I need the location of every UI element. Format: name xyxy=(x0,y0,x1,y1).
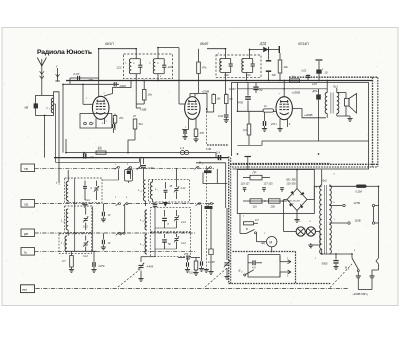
output transformer Тр1 xyxy=(325,85,339,114)
svg-text:300: 300 xyxy=(272,74,277,77)
label 2 плюс xyxy=(243,216,245,218)
wire bridge right xyxy=(307,186,314,199)
tank4 capacitor xyxy=(246,59,255,78)
connector arrow 2 xyxy=(280,270,291,278)
bridge diodes xyxy=(289,191,304,208)
trimmer box1c xyxy=(83,236,88,259)
wire tank3 top xyxy=(207,49,226,59)
label 222 xyxy=(116,66,122,70)
svg-text:6,3В: 6,3В xyxy=(206,148,211,151)
coil box 1a xyxy=(65,178,102,203)
trimmer box1a xyxy=(85,181,99,202)
trafo pin numbers xyxy=(315,174,336,261)
resistor 47к at V1 xyxy=(113,114,124,131)
bridge rectifier xyxy=(287,189,307,211)
tank1 capacitor xyxy=(138,59,142,74)
svg-text:0,02: 0,02 xyxy=(218,114,224,118)
capacitor 2070 xyxy=(91,251,104,272)
svg-text:0,25А: 0,25А xyxy=(356,191,363,194)
chassis wavy right xyxy=(373,77,378,167)
wire box top-right to L2 column xyxy=(54,92,60,183)
svg-text:3-12: 3-12 xyxy=(83,226,88,229)
svg-text:Тр2: Тр2 xyxy=(322,179,327,183)
trimmer box2b xyxy=(174,210,187,228)
switch shaft dashed xyxy=(204,108,209,272)
label pin 6 V2 xyxy=(197,94,199,96)
svg-text:1,0: 1,0 xyxy=(98,146,102,150)
capacitor 56 xyxy=(162,234,171,249)
line СВ xyxy=(35,203,118,205)
wire tank4 bottom xyxy=(246,73,248,81)
resistor 10к xyxy=(278,53,288,81)
contact 2c xyxy=(196,203,201,206)
socket УВ xyxy=(21,164,35,172)
resistor 680к xyxy=(224,93,233,114)
capacitor 0,07 xyxy=(74,72,80,80)
label 5 trafo xyxy=(316,187,318,189)
trimmer box2c xyxy=(174,234,187,249)
capacitor 8 box2b xyxy=(162,210,169,228)
coil box 2a xyxy=(148,179,189,202)
svg-text:В: В xyxy=(246,227,248,231)
wire group1 right xyxy=(92,207,94,252)
wire trafo secondary xyxy=(337,88,350,116)
svg-text:+250В: +250В xyxy=(202,90,210,94)
label 1 мотор xyxy=(264,233,266,235)
volume pot wire xyxy=(237,111,276,113)
wafer section box xyxy=(125,170,133,184)
label -20В xyxy=(140,108,147,112)
svg-text:5000: 5000 xyxy=(322,262,328,266)
contact 1e xyxy=(137,159,142,170)
svg-text:82: 82 xyxy=(260,88,263,92)
ground box1a xyxy=(82,203,87,208)
contact 3b xyxy=(120,232,125,235)
label 25 xyxy=(132,115,136,118)
wire group1 spine xyxy=(68,178,75,251)
line ДВ xyxy=(35,232,197,234)
wire tuner top line xyxy=(196,163,226,208)
IF transformer box ПЧ2 xyxy=(216,55,261,77)
svg-text:4700: 4700 xyxy=(238,102,244,105)
label 6П14П xyxy=(298,42,309,46)
svg-text:6И1П: 6И1П xyxy=(105,42,114,46)
wire lamps xyxy=(284,231,321,233)
wire primary top xyxy=(314,170,321,187)
svg-text:Д2Д: Д2Д xyxy=(259,42,267,46)
capacitor 270 xyxy=(178,253,200,260)
label 127-220 xyxy=(264,183,274,186)
tube V1 xyxy=(92,96,109,119)
coil L6 xyxy=(138,180,146,206)
wire V1 pins down xyxy=(80,114,112,129)
resistor 110 xyxy=(250,199,262,209)
wire anode bus +250В xyxy=(66,80,373,82)
svg-text:200: 200 xyxy=(271,205,276,209)
svg-text:5,1М: 5,1М xyxy=(189,272,194,275)
svg-text:110-127: 110-127 xyxy=(241,183,251,186)
resistor 47к AGC xyxy=(197,49,207,94)
wire tank2 top to det line xyxy=(158,48,179,59)
capacitor 20 det xyxy=(185,258,190,273)
capacitor feedthrough psu xyxy=(245,157,252,170)
capacitor 470 cathode xyxy=(262,111,276,131)
label 300-30В xyxy=(286,179,296,182)
svg-text:3-12: 3-12 xyxy=(181,242,186,245)
grid resistor 1к xyxy=(263,104,274,112)
tank3 capacitor xyxy=(224,59,233,78)
variable capacitor КПЕ1 xyxy=(138,257,154,282)
coil L5 xyxy=(61,236,67,252)
wire V2 pins down xyxy=(189,119,197,130)
capacitor on bus xyxy=(302,70,311,81)
choke 1,3 xyxy=(180,146,189,155)
tank4 coil xyxy=(242,59,253,73)
svg-text:ПР: ПР xyxy=(253,171,257,175)
turntable inner box xyxy=(248,255,280,278)
turntable wavy box xyxy=(233,252,296,284)
trim box small xyxy=(208,209,213,274)
wire V2 anode up xyxy=(190,93,207,96)
connector arrow 1 xyxy=(280,256,291,264)
svg-text:6П14П: 6П14П xyxy=(298,42,309,46)
socket звук xyxy=(21,285,35,293)
plug bar xyxy=(358,289,372,291)
svg-text:3-12: 3-12 xyxy=(85,199,90,202)
wire bridge bottom xyxy=(294,211,299,223)
tuner wavy border xyxy=(207,144,229,146)
capacitor 10 lower xyxy=(101,233,111,250)
wire osc coil column xyxy=(143,158,145,164)
line СВ right xyxy=(128,203,214,205)
switch wafer row2 xyxy=(202,205,213,209)
svg-text:3,3М: 3,3М xyxy=(148,167,154,170)
svg-text:110: 110 xyxy=(253,205,258,209)
svg-text:~220В 50Гц: ~220В 50Гц xyxy=(352,292,368,296)
svg-text:0,07: 0,07 xyxy=(74,72,80,76)
contact 1c xyxy=(194,166,199,169)
wire chassis bus xyxy=(54,157,229,159)
capacitor 0,4 to chassis xyxy=(216,150,228,160)
tap row 127В xyxy=(329,201,378,207)
tank1 coil xyxy=(129,59,140,74)
socket ДВ xyxy=(21,229,35,237)
coil L2 xyxy=(56,170,68,203)
line УВ right xyxy=(128,167,214,169)
svg-text:2070: 2070 xyxy=(98,264,105,268)
resistor 470 V2 xyxy=(193,129,204,142)
svg-text:4-495: 4-495 xyxy=(208,260,215,264)
capacitor 4700 xyxy=(238,83,251,112)
chassis wavy left xyxy=(229,157,231,284)
speaker Гр1 xyxy=(345,93,357,117)
socket Гр xyxy=(21,248,35,256)
coil box 1c xyxy=(59,234,92,254)
svg-text:1П: 1П xyxy=(255,218,258,222)
svg-text:470: 470 xyxy=(200,131,205,135)
coil L7 in box xyxy=(150,179,159,202)
svg-text:0,02: 0,02 xyxy=(302,70,307,73)
svg-text:4-495: 4-495 xyxy=(147,265,154,269)
motor ЭД xyxy=(257,233,277,247)
resistor 5,1М xyxy=(189,258,199,276)
capacitor V2 cathode xyxy=(182,130,189,140)
contact 3a xyxy=(116,232,121,235)
title xyxy=(37,49,92,56)
resistor 51к xyxy=(128,119,144,153)
label 4а xyxy=(322,69,324,71)
fuse 0,25А xyxy=(356,185,379,194)
svg-text:В: В xyxy=(239,269,241,273)
svg-text:УВ: УВ xyxy=(24,167,28,171)
wire V1 osc plate xyxy=(104,81,131,97)
svg-text:300- 30В: 300- 30В xyxy=(286,179,296,182)
svg-text:1,3: 1,3 xyxy=(180,146,184,150)
label звb xyxy=(299,221,311,223)
capacitor AGC line xyxy=(199,209,204,271)
svg-text:0,047: 0,047 xyxy=(229,87,236,91)
svg-text:3-12: 3-12 xyxy=(83,255,88,258)
label АВС-80-260 xyxy=(288,199,301,202)
trimmer box1b xyxy=(83,208,88,230)
label pin 1 V2 xyxy=(185,127,187,129)
wire heater line xyxy=(66,139,216,158)
line УВ xyxy=(35,167,118,169)
wire trafo bottom xyxy=(322,249,352,254)
label 0,25 xyxy=(312,83,317,86)
wire motor down xyxy=(272,247,277,252)
svg-text:47к: 47к xyxy=(202,66,207,70)
lamp Л2 xyxy=(306,227,315,236)
capacitor 5000 xyxy=(322,254,339,269)
label 310a xyxy=(218,53,220,55)
label pin 3 V3 xyxy=(276,124,278,126)
svg-text:1: 1 xyxy=(49,109,50,111)
resistor 0,3 xyxy=(243,111,251,145)
svg-text:ДВ: ДВ xyxy=(24,232,28,236)
fuse ПР xyxy=(243,171,270,180)
label 6К4П xyxy=(200,42,209,46)
contact 1d xyxy=(207,167,212,170)
node grid V1 xyxy=(82,84,92,105)
label +250В xyxy=(292,91,301,95)
capacitor link xyxy=(153,202,157,209)
label +20В xyxy=(87,78,94,82)
wire grid line B xyxy=(63,84,119,152)
svg-text:4,0: 4,0 xyxy=(252,266,256,270)
contact 1b xyxy=(127,166,132,169)
wire V3 anode out xyxy=(292,109,325,118)
wire V2 grid riser xyxy=(179,48,185,104)
label pin 7 V3 xyxy=(279,94,281,96)
capacitor at V1 base xyxy=(113,118,115,133)
tube V3 xyxy=(276,97,292,120)
plug pin2 xyxy=(370,276,375,290)
svg-text:222: 222 xyxy=(116,66,122,70)
socket СВ xyxy=(21,200,35,208)
svg-text:+250В: +250В xyxy=(292,91,301,95)
switch В2 xyxy=(240,223,258,234)
resistor 15к xyxy=(136,81,152,105)
svg-text:М: М xyxy=(270,241,273,245)
svg-text:2-12: 2-12 xyxy=(180,221,186,224)
wire tank2 bottom xyxy=(157,74,159,81)
resistor 200 xyxy=(269,199,281,209)
label 220В 50Гц xyxy=(352,292,368,296)
label pin 7 V1 xyxy=(106,121,108,123)
chassis wavy bottom xyxy=(230,164,378,167)
wire det to grid res xyxy=(207,93,214,112)
coil box 2c xyxy=(150,232,190,256)
plug pin1 xyxy=(356,276,361,290)
coil L8 xyxy=(140,206,147,230)
resistor 1М xyxy=(212,93,221,112)
scan speckle xyxy=(4,29,391,304)
label 220-300 xyxy=(287,183,297,186)
contact drop 2a xyxy=(124,205,126,234)
contact 1a xyxy=(115,166,120,169)
wire V3 anode riser xyxy=(283,81,285,97)
capacitor on box edge xyxy=(34,103,46,116)
coil box 2b xyxy=(150,208,190,232)
capacitor 45 box2a xyxy=(164,182,173,199)
label 6,3В xyxy=(206,148,211,151)
capacitor 470 to chassis xyxy=(84,153,95,160)
tap row 110В xyxy=(329,219,378,225)
wire group2 mid xyxy=(147,209,177,257)
lamp Л1 xyxy=(296,227,305,236)
switch wafer row1 xyxy=(203,169,227,184)
label pin 2 V1 xyxy=(104,93,106,95)
wire trafo primary xyxy=(326,81,328,118)
capacitor 10,0 top xyxy=(316,60,328,81)
label В1 switch xyxy=(199,161,203,166)
switch В4 xyxy=(345,254,359,276)
variable capacitor КПЕ2 xyxy=(208,208,230,279)
resistor 470 motor xyxy=(240,214,258,225)
wire tap stub xyxy=(373,207,375,222)
tank3 coil xyxy=(220,59,231,73)
capacitor 0,02 xyxy=(218,114,229,123)
terminal bar xyxy=(278,46,280,53)
capacitor 3,3М xyxy=(141,166,154,180)
label 1 row xyxy=(115,164,129,166)
magnetic antenna box xyxy=(36,95,54,115)
label +250 V2 xyxy=(202,90,210,94)
coil box 1b xyxy=(65,206,92,232)
label АП xyxy=(136,76,162,78)
dash link to В4 xyxy=(330,264,352,288)
label 220 xyxy=(167,65,173,69)
wire IF1 sec down xyxy=(136,104,141,108)
svg-text:1М: 1М xyxy=(217,97,222,101)
svg-text:4,7: 4,7 xyxy=(62,259,66,263)
svg-text:127В: 127В xyxy=(354,201,360,205)
wire secondary top xyxy=(329,185,356,187)
IF transformer box ПЧ1 xyxy=(124,54,173,79)
svg-text:АВС-80-260: АВС-80-260 xyxy=(288,199,301,202)
label г5 xyxy=(337,168,338,170)
svg-text:ДР1А: ДР1А xyxy=(312,90,320,93)
wire tank1 bottom xyxy=(135,74,137,104)
label 6И1П xyxy=(105,42,114,46)
svg-text:10к: 10к xyxy=(284,65,289,69)
svg-text:В: В xyxy=(199,161,201,165)
contact 2d xyxy=(208,203,213,206)
label L sec xyxy=(126,62,152,65)
gang dash link xyxy=(118,268,227,287)
selector caps xyxy=(243,188,284,192)
wire B+ feed xyxy=(238,88,327,90)
label +200В xyxy=(304,113,313,117)
choke 1,2 xyxy=(96,147,106,155)
trimmer box2a xyxy=(174,168,186,199)
svg-text:0,3: 0,3 xyxy=(243,128,247,132)
svg-text:110В: 110В xyxy=(355,219,361,223)
svg-text:+200В: +200В xyxy=(304,113,313,117)
capacitor 300 xyxy=(266,50,276,81)
capacitor 82 xyxy=(253,83,263,94)
ground speaker xyxy=(347,116,352,121)
wire bridge top xyxy=(296,170,298,189)
wire tank4 top to diode xyxy=(249,50,251,59)
capacitor box1a xyxy=(83,181,93,201)
svg-text:127-220: 127-220 xyxy=(264,183,274,186)
resistor 4,7к xyxy=(62,251,74,272)
tank2 capacitor xyxy=(162,59,166,74)
svg-text:2-12: 2-12 xyxy=(180,187,186,190)
antenna W2 (local) xyxy=(55,64,60,81)
label 2 row xyxy=(115,197,128,199)
chassis wavy top xyxy=(289,76,378,78)
svg-text:звук: звук xyxy=(22,289,28,292)
contact drop 1a xyxy=(102,169,119,180)
pin numbers V1 xyxy=(93,123,104,125)
tube V2 xyxy=(185,97,200,120)
wire tank1 top xyxy=(135,49,137,59)
contact 2a xyxy=(116,203,121,206)
selector box xyxy=(237,170,314,214)
contact drop 1b xyxy=(130,169,132,179)
switch В3 xyxy=(239,269,254,277)
wire V3 cathode xyxy=(277,119,291,131)
svg-text:Радиола Юность: Радиола Юность xyxy=(37,49,92,56)
wire group1 bottom xyxy=(66,250,97,252)
svg-text:МВ: МВ xyxy=(25,106,29,109)
svg-text:1: 1 xyxy=(202,164,203,166)
svg-text:В: В xyxy=(345,266,347,270)
wire box bottom to chassis xyxy=(44,116,46,158)
line Гр xyxy=(35,250,197,252)
svg-text:0,25: 0,25 xyxy=(312,83,317,86)
capacitor 10 upper xyxy=(101,204,111,222)
power transformer Тр2 xyxy=(320,179,332,255)
svg-text:220: 220 xyxy=(167,65,173,69)
svg-text:Гр: Гр xyxy=(24,250,27,254)
PSU wavy top xyxy=(233,163,331,165)
svg-text:270: 270 xyxy=(183,253,189,256)
svg-text:15к: 15к xyxy=(148,93,153,97)
svg-text:6К4П: 6К4П xyxy=(200,42,209,46)
svg-text:220-300: 220-300 xyxy=(287,183,297,186)
wire amp left drop xyxy=(237,83,239,112)
svg-text:0,4: 0,4 xyxy=(216,150,220,154)
amp inner box xyxy=(232,83,369,170)
PSU wavy bottom xyxy=(229,283,331,285)
label Др xyxy=(98,146,102,150)
wire avc line xyxy=(54,104,140,162)
contact 2b xyxy=(123,203,128,206)
